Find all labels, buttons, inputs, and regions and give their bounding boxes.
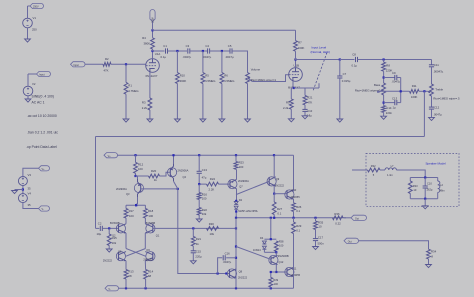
wire C2 to diff input node <box>102 227 118 229</box>
resistor R29 <box>292 218 302 234</box>
capacitor C1 <box>161 44 168 59</box>
resistor R16 <box>197 184 207 200</box>
wire bottom of D4 R38 <box>264 249 277 253</box>
net flag 250V (vertical) above R4 <box>150 9 155 30</box>
ground below V2 <box>25 96 31 102</box>
svg-text:380K: 380K <box>143 42 150 46</box>
annotation Normal High <box>311 50 331 54</box>
RLC top rail <box>410 176 437 178</box>
wire Q4 emitter to V+ rail <box>172 154 174 163</box>
svg-text:0.1: 0.1 <box>296 229 300 233</box>
svg-text:Rtot=1MEG wiper=.5: Rtot=1MEG wiper=.5 <box>433 97 460 101</box>
resistor R32 <box>368 164 381 177</box>
svg-text:BC546B: BC546B <box>110 221 120 225</box>
transistor Q2 <box>110 221 126 237</box>
wire C7 node to C8 <box>340 59 355 61</box>
svg-text:V3: V3 <box>28 173 32 177</box>
svg-text:.0047µ: .0047µ <box>225 55 234 59</box>
svg-text:100: 100 <box>129 214 134 218</box>
wire junction down to R1 <box>125 64 127 82</box>
svg-text:Q10: Q10 <box>291 188 296 192</box>
potentiometer Treble <box>430 84 460 101</box>
resistor R9 <box>283 88 293 110</box>
wire bias column down to Q8 base row <box>178 189 230 275</box>
capacitor C5 <box>225 44 234 59</box>
wire R24 to Q7 base <box>219 183 231 185</box>
net flag V+ at V3 <box>39 166 50 171</box>
wire plate U1B node to C7 node <box>294 58 341 60</box>
wire RLC to ground <box>422 199 428 209</box>
svg-text:(Normal, High): (Normal, High) <box>311 50 331 54</box>
wire tone output long horizontal <box>96 136 425 138</box>
value 35 of V4 <box>28 203 32 207</box>
svg-text:48m: 48m <box>440 189 445 193</box>
wire V+ rail corner to Q10 collector <box>293 155 295 191</box>
svg-text:U1B: U1B <box>294 64 300 68</box>
wire Q12 collector to Q11 base row <box>275 265 287 274</box>
V+ rail wire <box>118 154 294 156</box>
wire C1 to node A <box>168 50 188 52</box>
svg-text:C10: C10 <box>427 181 432 185</box>
svg-text:Q7: Q7 <box>239 184 243 188</box>
wire V1 flag to V1 top <box>28 6 31 18</box>
wire V1 bottom to ground <box>27 28 29 39</box>
svg-text:250V: 250V <box>33 6 39 9</box>
net flag Out to speaker load <box>344 238 358 243</box>
wire R2 to grid with junction <box>111 63 146 65</box>
resistor R34 <box>427 249 437 259</box>
B+ rail wire <box>153 29 296 31</box>
resistor R2 <box>103 57 111 72</box>
svg-text:0.1: 0.1 <box>296 209 300 213</box>
svg-text:R36: R36 <box>334 212 340 216</box>
wire Q3 base row to R16 node <box>141 188 179 190</box>
svg-text:MA5P-L2N2-9H8L: MA5P-L2N2-9H8L <box>238 210 258 213</box>
C16 branch wire <box>218 258 223 274</box>
wire bass wiper to mid row <box>378 90 410 92</box>
svg-text:Out: Out <box>348 241 352 244</box>
potentiometer Bass <box>355 83 386 95</box>
svg-text:R13: R13 <box>128 269 134 273</box>
resistor R8 <box>382 60 393 73</box>
wire diff collector row <box>126 204 145 206</box>
svg-text:100: 100 <box>202 196 207 200</box>
svg-text:100: 100 <box>148 214 153 218</box>
potentiometer Volume <box>246 68 277 84</box>
wire Q9 collector to rail <box>273 155 275 178</box>
resistor R38 <box>274 239 284 251</box>
voltage source V4 <box>18 192 31 203</box>
svg-text:68: 68 <box>148 274 152 278</box>
svg-text:1.5MEG: 1.5MEG <box>205 79 215 83</box>
svg-text:C3: C3 <box>186 44 190 48</box>
resistor R14 <box>144 269 154 279</box>
svg-text:Rtot=1MEG wiper=0: Rtot=1MEG wiper=0 <box>355 89 381 93</box>
ground below R10 <box>175 119 181 122</box>
wire R39 top <box>270 271 277 278</box>
wire V3 top to V+ flag <box>23 168 39 176</box>
svg-text:R32: R32 <box>371 164 376 168</box>
wire R10 to ground <box>176 84 178 119</box>
resistor R11 <box>410 84 420 99</box>
net flag V- power amp <box>105 286 118 291</box>
svg-text:.00047µ: .00047µ <box>433 70 444 74</box>
svg-text:R10: R10 <box>180 73 186 77</box>
transistor Q7 <box>228 179 249 189</box>
svg-text:47µ: 47µ <box>202 176 207 180</box>
label 1N914 of D4 <box>253 248 261 252</box>
inductor L7 <box>385 164 396 177</box>
svg-text:C10: C10 <box>307 109 312 113</box>
directive .tran <box>27 131 58 135</box>
net flag Out at output <box>344 215 367 220</box>
wire C8 to tone stack <box>358 58 432 60</box>
wire C11 to treble pot <box>431 67 433 84</box>
svg-text:R27: R27 <box>277 207 283 211</box>
ground below R22 <box>196 215 202 222</box>
resistor R5 <box>201 73 215 84</box>
diode D4b <box>262 246 266 249</box>
svg-text:R8: R8 <box>386 63 390 67</box>
resistor R24 <box>207 177 219 191</box>
resistor R10 <box>176 73 187 84</box>
diagonal wire feedback to Q12 base <box>236 247 269 259</box>
transistor Q8 <box>227 269 247 280</box>
svg-text:R4: R4 <box>142 36 146 40</box>
value SINE of V2 <box>32 94 54 98</box>
diode D2a <box>234 198 242 204</box>
resistor R18 <box>144 205 154 218</box>
svg-text:Q1: Q1 <box>156 233 160 237</box>
svg-text:35: 35 <box>28 203 32 207</box>
svg-text:R34: R34 <box>431 249 437 253</box>
svg-text:Q11: Q11 <box>292 266 297 270</box>
svg-text:2N3055: 2N3055 <box>291 273 301 277</box>
svg-text:0.22: 0.22 <box>335 222 341 226</box>
value 250 of V1 <box>32 28 37 32</box>
svg-text:4.7MEG: 4.7MEG <box>128 89 138 93</box>
transistor Q1 <box>145 221 160 237</box>
wire plate U1B to node <box>294 58 296 67</box>
svg-text:2N2906A: 2N2906A <box>116 187 127 191</box>
resistor R4 <box>142 36 154 51</box>
svg-text:100: 100 <box>239 165 244 169</box>
capacitor C10 under R21 <box>302 105 313 119</box>
svg-text:10k: 10k <box>202 212 207 216</box>
svg-text:100: 100 <box>138 167 143 171</box>
svg-text:Q5: Q5 <box>118 250 122 254</box>
svg-text:100: 100 <box>279 244 284 248</box>
svg-text:R38: R38 <box>279 239 284 243</box>
voltage source V2 <box>23 82 36 96</box>
svg-text:Bass: Bass <box>374 83 381 87</box>
resistor R39 <box>269 278 279 288</box>
svg-text:D2: D2 <box>239 198 243 202</box>
svg-text:1.5MEG: 1.5MEG <box>224 79 234 83</box>
svg-text:Q4: Q4 <box>183 175 187 179</box>
RLC bottom rail <box>410 198 437 200</box>
transistor Q3 <box>116 179 143 197</box>
wire R9 to ground <box>288 109 294 122</box>
wire Q3 collector to diff row <box>135 197 138 206</box>
wire C13 to mid vertical <box>397 102 401 104</box>
triode U1B <box>289 64 303 82</box>
svg-text:R7: R7 <box>298 40 302 44</box>
wire R26 to output rail <box>293 212 295 218</box>
transistor Q9 <box>267 177 285 188</box>
svg-text:0.015µ: 0.015µ <box>342 79 351 83</box>
svg-text:R21: R21 <box>307 96 313 100</box>
svg-text:R33: R33 <box>413 184 418 188</box>
transistor Q11 <box>285 266 301 277</box>
svg-text:0.1µ: 0.1µ <box>352 63 358 67</box>
wire Q10 emitter to R26 <box>293 199 295 203</box>
svg-text:C2: C2 <box>98 222 102 226</box>
wire Q8 emitter to column <box>0 0 1 1</box>
svg-text:220µ: 220µ <box>195 255 202 259</box>
wire bass top node to C9 <box>384 77 395 79</box>
capacitor C14 <box>382 106 393 115</box>
wire R3 to ground <box>149 110 151 119</box>
wire V4 bottom to V- flag <box>23 203 39 209</box>
wire R34 to ground <box>426 259 432 268</box>
wire R20 row from R12 junction <box>136 175 149 177</box>
svg-text:Input Level: Input Level <box>312 45 327 49</box>
svg-text:.0047µ: .0047µ <box>392 79 401 83</box>
directive .op label <box>26 145 57 149</box>
wire R12 to Q3 emitter <box>134 173 137 179</box>
svg-text:R12: R12 <box>138 162 144 166</box>
wire L7 to RLC <box>396 170 425 178</box>
wire node down to R15 <box>108 228 110 234</box>
net flag 250V at top of V1 <box>30 3 44 8</box>
wire Q11 emitter <box>0 0 1 1</box>
svg-text:.tran 0.2 1.2 .001 uic: .tran 0.2 1.2 .001 uic <box>27 131 58 135</box>
capacitor C13 47u <box>197 168 208 180</box>
resistor R22 <box>197 200 207 216</box>
wire Out to R34 <box>359 241 429 249</box>
wire top of D4 R38 <box>264 218 276 241</box>
svg-text:2.2k: 2.2k <box>283 106 289 110</box>
svg-text:1N914: 1N914 <box>253 248 261 252</box>
diode D2b <box>234 206 238 209</box>
wire C4 to node C <box>210 50 230 52</box>
wire V3 to V4 with center tap <box>15 186 25 194</box>
svg-text:10: 10 <box>318 225 322 229</box>
ground below V1 <box>25 39 31 42</box>
svg-text:C14: C14 <box>386 106 392 110</box>
resistor R12 <box>134 155 144 173</box>
resistor R26 <box>292 203 302 213</box>
diagonal wire Q7 collector to Q9 base <box>236 181 269 194</box>
wire C12 to ground <box>429 109 435 120</box>
ground below R3 <box>147 119 153 122</box>
svg-text:2N2906B: 2N2906B <box>278 254 289 258</box>
ground below R6 <box>219 119 225 122</box>
svg-text:C1: C1 <box>163 44 167 48</box>
svg-text:100: 100 <box>274 282 279 286</box>
capacitor C7 <box>337 72 351 83</box>
svg-text:100K: 100K <box>411 95 418 99</box>
svg-text:C13: C13 <box>392 96 398 100</box>
wire Input flag to R2 <box>85 63 103 65</box>
wire Q2 emitter to mirror <box>125 233 127 249</box>
net flag V+ power amp <box>104 153 118 158</box>
wire node A down to R10 <box>176 51 178 73</box>
resistor R36 <box>333 212 344 226</box>
ground below R1 <box>123 119 129 122</box>
svg-text:R6: R6 <box>224 73 228 77</box>
wire Q11 collector up R29 column <box>293 234 295 289</box>
wire tone output down to long feed <box>423 91 425 136</box>
svg-text:Input: Input <box>73 64 79 67</box>
speaker model dashed box <box>366 153 459 206</box>
transistor Q10 <box>285 188 300 200</box>
capacitor C10 <box>423 178 433 199</box>
wire C17 to ground <box>313 241 319 250</box>
svg-text:2N2222: 2N2222 <box>103 258 113 262</box>
capacitor C13 <box>392 96 398 109</box>
annotation Speaker Model <box>426 161 447 165</box>
svg-text:R21: R21 <box>196 237 202 241</box>
svg-text:C9: C9 <box>392 71 396 75</box>
svg-text:D4: D4 <box>260 236 264 240</box>
resistor R13 <box>124 269 134 279</box>
capacitor C11 <box>429 60 444 74</box>
capacitor C15 <box>191 246 202 259</box>
svg-text:.0047µ: .0047µ <box>183 55 192 59</box>
wire node C down to R6 <box>221 51 223 73</box>
wire R14 to V- rail <box>145 279 147 288</box>
svg-text:C12: C12 <box>434 105 440 109</box>
wire R7 to B+ rail <box>295 30 297 40</box>
annotation Input Level <box>312 45 327 49</box>
resistor R30 feedback <box>207 222 219 236</box>
transistor Q4 <box>168 163 189 181</box>
wire R6 to ground <box>221 84 223 119</box>
wire C13 to R24 row <box>198 173 206 185</box>
capacitor C2 <box>96 222 103 236</box>
svg-text:10µ: 10µ <box>97 232 102 236</box>
feedback row wire <box>160 227 237 229</box>
svg-text:C4: C4 <box>205 44 209 48</box>
wire bass pot to lower node <box>383 95 385 106</box>
wire to ground below bass leg <box>381 112 387 119</box>
resistor R20 <box>149 169 160 182</box>
svg-text:250: 250 <box>32 28 37 32</box>
resistor R33 <box>408 178 418 199</box>
svg-text:R3: R3 <box>142 101 146 105</box>
svg-text:500n: 500n <box>318 242 325 246</box>
ground below volume pot <box>245 119 251 122</box>
wire R4 to B+ rail <box>151 29 153 38</box>
output rail wire <box>235 217 346 219</box>
wire R13 to V- rail <box>125 279 127 288</box>
resistor R27 <box>272 194 282 216</box>
net flag Input at V2 <box>37 71 51 76</box>
svg-text:2.2K: 2.2K <box>209 187 215 191</box>
svg-text:47K: 47K <box>104 69 109 73</box>
svg-text:.ac oct 10 10 20000: .ac oct 10 10 20000 <box>27 114 57 118</box>
wire plate node to C1 <box>153 50 165 52</box>
svg-text:Input: Input <box>39 74 45 77</box>
triode U1A <box>146 52 161 72</box>
svg-text:R9: R9 <box>286 100 290 104</box>
ground at V3/V4 midpoint <box>12 191 18 194</box>
svg-text:R17: R17 <box>129 209 135 213</box>
svg-text:R24: R24 <box>210 177 216 181</box>
svg-text:R23: R23 <box>239 161 245 165</box>
svg-text:10k: 10k <box>112 241 117 245</box>
wire Q10 collector to rail corner <box>293 190 295 192</box>
wire R23 to Q7 emitter <box>235 162 238 180</box>
svg-text:R39: R39 <box>273 278 278 282</box>
wire R1 to ground <box>125 94 127 119</box>
wire R20 to Q4 base <box>160 172 171 176</box>
wire R8 to bass node <box>383 71 385 83</box>
svg-text:68: 68 <box>128 274 132 278</box>
svg-text:R30: R30 <box>209 222 215 226</box>
capacitor C8 <box>352 53 358 68</box>
svg-text:R18: R18 <box>148 209 154 213</box>
svg-text:V-: V- <box>108 288 110 291</box>
ground below R5 <box>200 119 206 122</box>
svg-text:V4: V4 <box>28 192 32 196</box>
resistor R17 <box>124 205 134 218</box>
wire Q7 collector to D2 <box>235 189 237 202</box>
net flag V- at V4 <box>39 206 50 211</box>
svg-text:2N2906A: 2N2906A <box>178 168 189 172</box>
mirror cross wires <box>126 249 146 257</box>
wire R11 to treble wiper <box>419 90 428 92</box>
wire V2 flag to source <box>28 74 37 86</box>
svg-text:2N2906A: 2N2906A <box>238 179 249 183</box>
resistor R35 Zobel <box>314 218 324 230</box>
wire Q5 emitter to R13 <box>125 261 127 270</box>
svg-text:AC AC 1: AC AC 1 <box>32 100 45 104</box>
wire Q9 emitter node to Q10 base <box>274 193 287 195</box>
capacitor C3 <box>183 44 192 59</box>
svg-text:Q2: Q2 <box>112 233 116 237</box>
transistor Q5 <box>103 250 126 263</box>
svg-text:.0047µ: .0047µ <box>203 55 212 59</box>
svg-text:V-: V- <box>42 208 44 211</box>
svg-text:C7: C7 <box>343 72 347 76</box>
svg-text:2.2k: 2.2k <box>142 106 148 110</box>
resistor R23 <box>234 155 244 169</box>
resistor R6 <box>220 73 234 84</box>
switch dashed line Input Level <box>313 53 327 92</box>
wire treble pot to C12 <box>431 96 433 107</box>
svg-text:.0047µ: .0047µ <box>433 112 442 116</box>
svg-text:Q9: Q9 <box>276 177 280 181</box>
svg-text:C17: C17 <box>318 235 324 239</box>
wire cathode U1B to node <box>293 81 295 89</box>
svg-text:R2: R2 <box>105 57 109 61</box>
wire R39 to V- rail <box>270 287 272 288</box>
svg-text:Treble: Treble <box>435 87 443 91</box>
wire rail to C13 <box>198 155 200 171</box>
svg-text:Q12: Q12 <box>278 260 283 264</box>
resistor R21 <box>303 95 313 105</box>
wire long feed left vertical <box>95 137 97 229</box>
voltage source V3 <box>18 173 31 185</box>
wire R15 to ground <box>106 246 112 253</box>
wire feedback column <box>235 218 237 288</box>
resistor R21b <box>191 228 201 246</box>
resistor R3 <box>142 98 152 110</box>
wire bass bottom node to C13 <box>384 102 395 104</box>
